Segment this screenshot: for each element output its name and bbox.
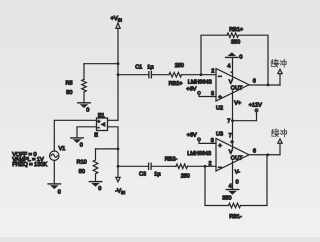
svg-text:-VIN: -VIN bbox=[115, 189, 125, 195]
svg-text:V-: V- bbox=[235, 170, 240, 176]
wire U2 pin4 to ground bbox=[232, 57, 234, 79]
svg-text:C3: C3 bbox=[139, 172, 146, 178]
wire U3 pin4 to ground bbox=[232, 161, 234, 190]
resistor RB2+ 250 bbox=[169, 63, 184, 87]
svg-text:0: 0 bbox=[236, 179, 239, 185]
terminal +12V bbox=[233, 102, 263, 120]
wire +12V rail to U3 pin7 bbox=[232, 121, 234, 149]
capacitor C1 1u bbox=[135, 64, 154, 77]
label V1 parameters bbox=[12, 152, 47, 168]
resistor R10 50 bbox=[77, 149, 98, 182]
controlled source E1 (VCVS) bbox=[94, 113, 107, 139]
wire top signal line bbox=[118, 74, 148, 76]
terminal +6V (U3 pin3) bbox=[187, 132, 201, 141]
wire E1 - output to -VIN net bbox=[108, 127, 119, 167]
svg-text:50: 50 bbox=[79, 169, 85, 175]
svg-text:RB2-: RB2- bbox=[165, 157, 178, 163]
svg-text:R10: R10 bbox=[77, 160, 87, 166]
node feedback junction U2 bbox=[200, 73, 203, 76]
wire V1 to E1 + input bbox=[54, 120, 96, 151]
svg-text:+: + bbox=[218, 94, 222, 101]
wire R10 branch bbox=[96, 148, 119, 150]
svg-text:+6V: +6V bbox=[186, 86, 196, 92]
port buffer out - bbox=[278, 139, 282, 155]
svg-text:RB1+: RB1+ bbox=[229, 27, 243, 33]
svg-text:−: − bbox=[218, 74, 222, 81]
svg-text:+: + bbox=[218, 143, 222, 150]
svg-text:250: 250 bbox=[175, 63, 184, 69]
ground 0 above U2 pin4 (flipped) bbox=[226, 52, 243, 60]
wire R5 branch bbox=[84, 63, 118, 65]
svg-text:1µ: 1µ bbox=[154, 172, 161, 178]
svg-text:0: 0 bbox=[58, 189, 61, 195]
wire RB2- to U3 pin2 bbox=[188, 165, 217, 167]
svg-text:50: 50 bbox=[66, 90, 72, 96]
ground 0 below V1 bbox=[48, 184, 61, 196]
svg-text:E: E bbox=[94, 133, 98, 139]
node +VIN port arrow bbox=[111, 16, 122, 28]
resistor RB2- 250 bbox=[165, 157, 190, 180]
svg-text:+6V: +6V bbox=[187, 132, 197, 138]
wire +6V to U2 pin3 bbox=[199, 94, 216, 96]
node junction C3 tap bbox=[117, 165, 120, 168]
svg-text:0: 0 bbox=[86, 108, 89, 114]
svg-text:0: 0 bbox=[98, 186, 101, 192]
node junction C1 tap bbox=[117, 73, 120, 76]
svg-text:+12V: +12V bbox=[249, 102, 262, 108]
wire U3 output bbox=[249, 154, 280, 156]
svg-text:RB2+: RB2+ bbox=[169, 81, 183, 87]
resistor RB1- 350 bbox=[222, 195, 242, 220]
svg-text:R5: R5 bbox=[66, 81, 73, 87]
svg-text:250: 250 bbox=[181, 174, 190, 180]
svg-text:4: 4 bbox=[227, 63, 230, 69]
capacitor C3 1u bbox=[139, 163, 161, 178]
svg-text:+: + bbox=[231, 139, 234, 145]
port buffer out + bbox=[278, 69, 282, 85]
svg-text:V+: V+ bbox=[234, 101, 241, 107]
svg-text:+VIN: +VIN bbox=[111, 16, 122, 22]
svg-text:E1: E1 bbox=[98, 113, 105, 119]
wire +VIN vertical bbox=[117, 28, 119, 120]
svg-text:FREQ = 130K: FREQ = 130K bbox=[12, 162, 47, 168]
resistor RB1+ 350 bbox=[227, 27, 243, 46]
svg-text:7: 7 bbox=[229, 133, 232, 139]
svg-text:7: 7 bbox=[227, 118, 230, 124]
ground 0 at E1 input bbox=[71, 138, 83, 149]
ground 0 below R10 bbox=[89, 182, 101, 192]
label buffer (top, hanzi) bbox=[271, 59, 286, 67]
wire U2 output bbox=[249, 84, 280, 86]
svg-text:6: 6 bbox=[253, 148, 256, 154]
svg-text:2: 2 bbox=[211, 69, 214, 75]
wire bottom signal line bbox=[118, 165, 148, 167]
wire RB1+ to output node bbox=[239, 35, 269, 85]
wire U2 pin7 to +12V rail bbox=[232, 91, 234, 121]
op-amp U3 LMH6643 bbox=[216, 132, 249, 172]
wire V1 to ground bbox=[53, 160, 55, 184]
node junction R5 tap bbox=[117, 62, 120, 65]
wire RB1- feedback loop bbox=[205, 166, 229, 205]
svg-text:−: − bbox=[218, 165, 222, 172]
svg-text:V1: V1 bbox=[59, 146, 66, 152]
svg-text:RB1-: RB1- bbox=[229, 214, 242, 220]
port -VIN arrow bbox=[115, 166, 125, 195]
svg-text:0: 0 bbox=[239, 54, 242, 60]
ground 0 below U3 pin4 bbox=[226, 189, 238, 191]
resistor R5 bbox=[66, 64, 87, 103]
wire C3 to RB2- bbox=[152, 165, 176, 167]
wire RB1+ feedback loop bbox=[201, 35, 227, 74]
wire C1 to RB2+ bbox=[152, 74, 169, 76]
svg-text:LMH6643: LMH6643 bbox=[187, 151, 211, 157]
node feedback junction U3 bbox=[204, 165, 207, 168]
wire E1 + output to +VIN net bbox=[108, 119, 119, 121]
label buffer (bottom, hanzi) bbox=[272, 129, 287, 137]
op-amp U2 LMH6643 bbox=[216, 69, 249, 112]
node junction U2 output bbox=[267, 84, 270, 87]
svg-text:350: 350 bbox=[231, 40, 240, 46]
svg-text:0: 0 bbox=[80, 143, 83, 149]
svg-text:U2: U2 bbox=[216, 105, 223, 111]
ground 0 below R5 bbox=[78, 103, 90, 114]
svg-text:350: 350 bbox=[222, 195, 231, 201]
wire RB2+ to U2 pin2 bbox=[182, 74, 217, 76]
svg-text:LMH6643: LMH6643 bbox=[188, 80, 212, 86]
svg-text:1µ: 1µ bbox=[147, 64, 154, 70]
wire RB1- to output node bbox=[241, 155, 268, 206]
terminal +6V (U2 pin3) bbox=[186, 86, 200, 94]
svg-text:4: 4 bbox=[229, 183, 232, 189]
svg-text:C1: C1 bbox=[135, 64, 142, 70]
svg-text:6: 6 bbox=[253, 79, 256, 85]
wire E1 - input to ground bbox=[77, 127, 97, 138]
source V1 sine bbox=[50, 146, 66, 160]
svg-text:U3: U3 bbox=[216, 132, 223, 138]
node junction +12V rail bbox=[231, 119, 234, 122]
node junction U3 output bbox=[266, 153, 269, 156]
wire +6V to U3 pin3 bbox=[199, 141, 216, 144]
node junction R10 tap bbox=[117, 148, 120, 151]
